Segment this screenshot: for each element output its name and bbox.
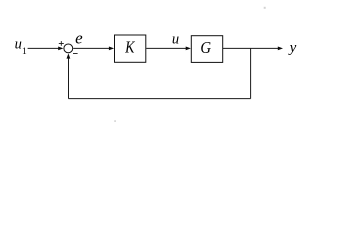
wire: feedback branch down from output bbox=[250, 48, 252, 98]
wire: block G to output y bbox=[223, 47, 279, 49]
svg-text:K: K bbox=[124, 38, 135, 56]
block K bbox=[115, 35, 146, 62]
wire: feedback rise to summing junction bbox=[68, 58, 70, 99]
svg-text:e: e bbox=[75, 29, 83, 48]
plus sign at summing junction bbox=[59, 41, 64, 46]
svg-text:y: y bbox=[288, 40, 297, 56]
svg-text:1: 1 bbox=[22, 47, 27, 57]
svg-text:G: G bbox=[200, 39, 211, 57]
svg-text:u: u bbox=[15, 36, 22, 52]
wire: block K to block G bbox=[146, 47, 187, 49]
minus sign at summing junction bbox=[73, 53, 78, 55]
summing junction circle bbox=[64, 44, 73, 53]
node u1 input label bbox=[15, 36, 27, 57]
wire: summing junction to block K bbox=[73, 47, 110, 49]
block G bbox=[191, 36, 222, 63]
svg-text:u: u bbox=[172, 31, 179, 47]
stray faint dot top right bbox=[264, 7, 266, 9]
wire: feedback bottom run bbox=[69, 98, 251, 100]
wire: u1 input to summing junction bbox=[28, 47, 60, 49]
stray faint dot bottom left bbox=[114, 120, 116, 122]
